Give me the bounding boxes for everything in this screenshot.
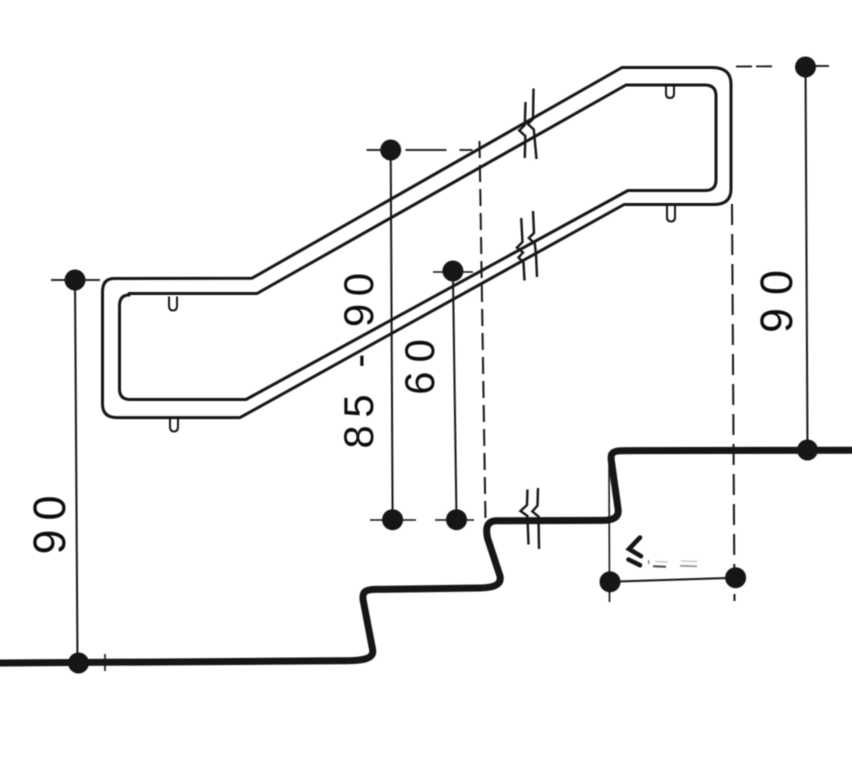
dimension 60: line — [453, 271, 457, 520]
dimension 90 left: top dot — [65, 270, 86, 291]
svg-text:90: 90 — [24, 486, 75, 554]
svg-text:85 - 90: 85 - 90 — [335, 265, 382, 448]
svg-text:90: 90 — [751, 257, 802, 333]
mount tick right-top — [666, 87, 674, 99]
dimension 90 right: top dash — [736, 65, 829, 68]
dimension 85-90: bottom dash — [370, 519, 416, 521]
mount tick left-top — [169, 297, 177, 311]
dimension 85-90: line — [391, 150, 393, 520]
erased label remnant — [648, 560, 651, 564]
dimension 85-90: bottom dot — [382, 509, 403, 530]
break mark tread — [521, 490, 529, 545]
less-or-equal symbol — [629, 538, 641, 557]
dimension 60: bottom dot — [446, 509, 467, 530]
dimension 60: top dash — [433, 271, 473, 273]
dimension 60: bottom dash — [435, 519, 474, 521]
dimension 90 right: line — [806, 67, 808, 450]
dimension 90 left: bottom dot — [68, 653, 89, 674]
mount tick left-bottom — [170, 419, 178, 432]
dimension 90 right: bottom dot — [797, 440, 818, 461]
centerline dash-dot at rail lower end — [480, 141, 486, 521]
dimension 85-90: top dashed extension — [367, 149, 474, 151]
stair profile — [0, 450, 852, 663]
tread-depth dimension: right dot — [725, 567, 746, 588]
floor tick — [104, 654, 106, 671]
mount tick right-bottom — [667, 206, 675, 222]
dimension 85-90: top dot — [380, 140, 401, 161]
tread-depth dimension: left guide line — [608, 453, 611, 602]
dimension 90 left: line — [75, 280, 78, 663]
svg-text:60: 60 — [396, 330, 443, 395]
dimension 90 right: top dot — [795, 57, 816, 78]
handrail inner outline — [120, 85, 717, 400]
centerline dash-dot at rail right end — [732, 204, 735, 601]
tread-depth dimension: left dot — [600, 571, 621, 592]
break mark upper rail — [519, 102, 525, 158]
dimension 90 left: top dash — [51, 279, 100, 281]
handrail outer outline — [103, 68, 732, 418]
break mark lower rail — [517, 218, 525, 281]
dimension 60: top dot — [442, 261, 463, 282]
tread-depth dimension: line — [610, 578, 736, 582]
